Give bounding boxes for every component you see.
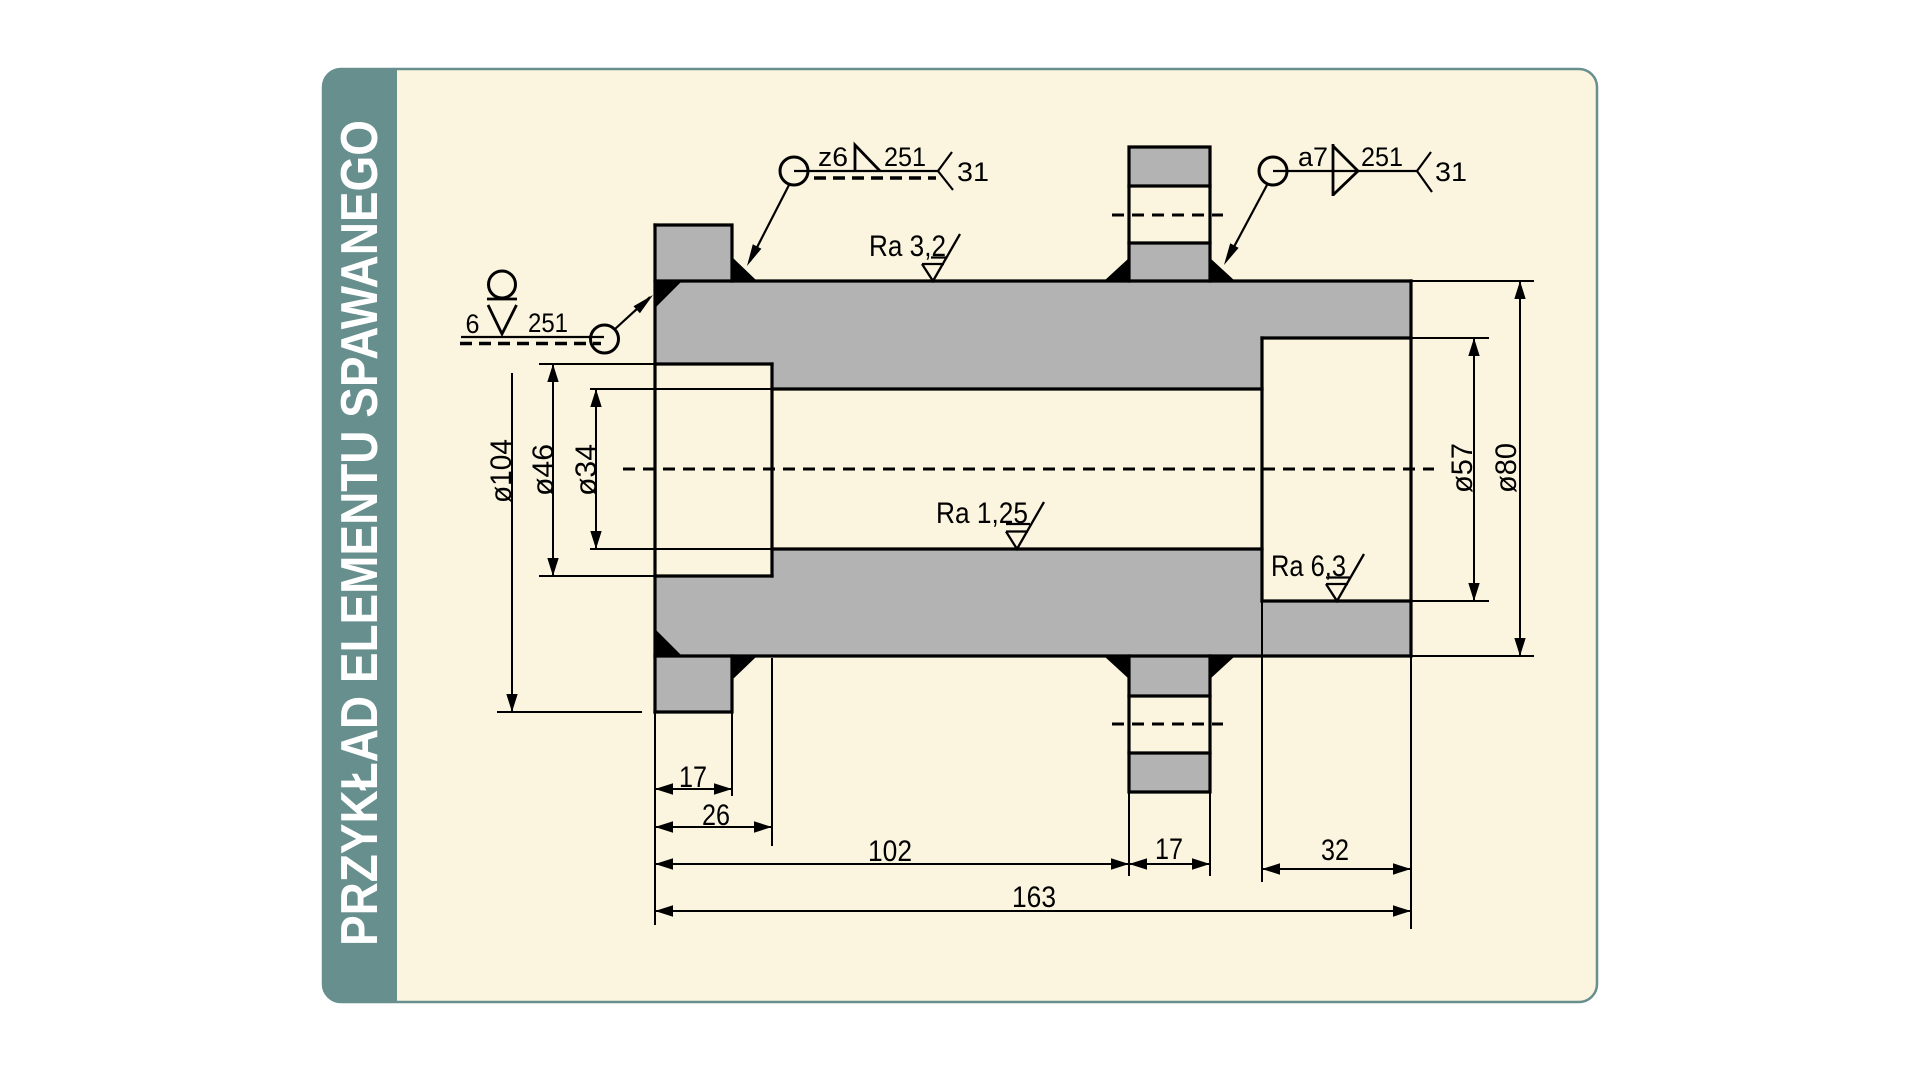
tube right end face xyxy=(1409,281,1412,656)
arrow o57 down xyxy=(1468,583,1479,601)
bore57 bottom edge xyxy=(1262,599,1411,602)
svg-text:251: 251 xyxy=(528,308,568,338)
flange square top outline xyxy=(655,225,732,281)
svg-text:PRZYKŁAD ELEMENTU SPAWANEGO: PRZYKŁAD ELEMENTU SPAWANEGO xyxy=(331,120,389,946)
svg-text:17: 17 xyxy=(679,761,707,794)
dim line o104 xyxy=(511,373,513,712)
arrow o57 up xyxy=(1468,338,1479,356)
dim line 17 left xyxy=(655,788,732,790)
left face line xyxy=(653,225,656,712)
ext counterbore vertical xyxy=(771,658,773,846)
leader line z6 xyxy=(750,185,789,261)
ext o104 bottom xyxy=(497,711,642,713)
arrows 17 left xyxy=(655,783,673,794)
ext left face vertical xyxy=(654,712,656,925)
tail fork a7 xyxy=(1417,152,1432,192)
tail fork z6 xyxy=(938,152,953,190)
Ra 1,25 symbol xyxy=(1006,502,1044,549)
leader line xyxy=(615,297,650,329)
bore57 step face xyxy=(1260,338,1263,601)
bottom stub outer band xyxy=(1129,753,1210,792)
fillet weld symbol z6 xyxy=(855,145,880,171)
ext top stub sides below xyxy=(1129,792,1210,876)
flange ring bottom section xyxy=(655,656,732,712)
top stub outer band xyxy=(1129,147,1210,186)
Ra 3,2 symbol xyxy=(922,234,960,281)
flange ring top section xyxy=(655,225,732,281)
arrow o104 down xyxy=(506,694,517,712)
arrows 17 right xyxy=(1129,858,1147,869)
all-around circle xyxy=(489,271,516,298)
svg-text:251: 251 xyxy=(1361,142,1403,172)
ext o80 bottom xyxy=(1411,655,1534,657)
ext flange right vertical xyxy=(731,712,733,796)
dim line o80 xyxy=(1519,281,1521,656)
weld flange-top right xyxy=(732,257,757,281)
ext o57 bottom xyxy=(1411,600,1489,602)
leader arrowhead z6 xyxy=(747,244,761,266)
ext o34 bottom xyxy=(590,548,772,550)
leader circle xyxy=(591,325,619,353)
weld bottom-stub right xyxy=(1210,656,1235,679)
bore edge bottom xyxy=(772,547,1262,550)
dim line 26 xyxy=(655,826,772,828)
weld bottom-stub left xyxy=(1104,656,1129,679)
bore57 top edge xyxy=(1262,336,1411,339)
svg-text:163: 163 xyxy=(1012,881,1056,914)
bottom stub outline xyxy=(1129,656,1210,792)
leader circle a7 xyxy=(1259,157,1287,185)
ext tube right end vertical xyxy=(1410,656,1412,929)
main axis centerline xyxy=(623,468,1434,471)
weld top-stub left xyxy=(1104,258,1129,281)
leader line a7 xyxy=(1228,185,1267,258)
dim line o34 xyxy=(595,389,597,549)
svg-text:ø80: ø80 xyxy=(1490,443,1523,493)
weld flange-bottom right xyxy=(732,656,757,680)
svg-text:ø57: ø57 xyxy=(1446,443,1479,493)
tube top surface xyxy=(655,279,1411,282)
bottom stub hole lines xyxy=(1129,696,1210,753)
dim line o57 xyxy=(1473,338,1475,601)
leader arrowhead a7 xyxy=(1224,243,1239,265)
dim line 32 xyxy=(1262,868,1411,870)
top stub outline xyxy=(1129,147,1210,281)
weld tube bottom-left corner xyxy=(655,629,681,655)
top stub hole lines xyxy=(1129,186,1210,243)
top stub inner band xyxy=(1129,243,1210,281)
reference line a7 xyxy=(1273,170,1417,172)
svg-text:ø104: ø104 xyxy=(485,439,518,503)
arrows 102 xyxy=(655,858,673,869)
svg-text:ø34: ø34 xyxy=(570,444,603,496)
svg-text:17: 17 xyxy=(1155,833,1183,866)
reference line xyxy=(461,336,604,338)
svg-text:ø46: ø46 xyxy=(527,444,560,496)
V weld symbol xyxy=(488,305,517,334)
identification dashed line z6 xyxy=(814,176,936,180)
arrows 32 xyxy=(1262,863,1280,874)
tube lower wall xyxy=(655,549,1411,656)
ext o34 top xyxy=(590,388,772,390)
top stub hole centerline xyxy=(1112,214,1223,217)
bottom stub hole centerline xyxy=(1112,723,1223,726)
svg-text:32: 32 xyxy=(1321,834,1349,867)
Ra 6,3 symbol xyxy=(1326,554,1364,601)
ext o46 top xyxy=(539,363,655,365)
arrow o34 down xyxy=(590,531,601,549)
dim line 163 xyxy=(655,910,1411,912)
bottom stub inner band xyxy=(1129,656,1210,696)
reference line z6 xyxy=(794,170,938,172)
dim line 17 right xyxy=(1129,863,1210,865)
identification dashed line xyxy=(460,342,601,346)
ext o46 bottom xyxy=(539,575,655,577)
arrow o46 up xyxy=(547,364,558,382)
arrows 26 xyxy=(655,821,673,832)
tube bottom surface xyxy=(655,654,1411,657)
arrow o80 down xyxy=(1514,638,1525,656)
ext o80 top xyxy=(1411,280,1534,282)
dim line 102 xyxy=(655,863,1129,865)
tube upper wall xyxy=(655,281,1411,389)
svg-text:31: 31 xyxy=(957,157,989,187)
svg-text:z6: z6 xyxy=(818,142,848,172)
bar under circle xyxy=(487,298,517,301)
svg-text:102: 102 xyxy=(868,835,912,868)
leader circle z6 xyxy=(780,157,808,185)
svg-text:31: 31 xyxy=(1435,157,1467,187)
ext o57 top xyxy=(1411,337,1489,339)
arrows 163 xyxy=(655,905,673,916)
flange square bottom outline xyxy=(655,656,732,712)
bevel weld symbol a7 xyxy=(1333,144,1358,196)
arrow o34 up xyxy=(590,389,601,407)
leader arrowhead xyxy=(634,295,654,313)
arrow o80 up xyxy=(1514,281,1525,299)
weld top-stub right xyxy=(1210,258,1235,281)
svg-text:26: 26 xyxy=(702,799,730,832)
ext bore57 step vertical xyxy=(1261,601,1263,882)
counterbore bottom edge xyxy=(655,574,772,577)
sidebar xyxy=(323,69,397,1003)
svg-text:a7: a7 xyxy=(1298,142,1328,172)
dim line o46 xyxy=(552,364,554,576)
weld tube top-left corner xyxy=(655,282,681,308)
counterbore face xyxy=(770,364,773,576)
card xyxy=(323,69,1597,1002)
bore edge top xyxy=(772,387,1262,390)
counterbore top edge xyxy=(655,362,772,365)
svg-text:6: 6 xyxy=(466,309,480,339)
arrow o46 down xyxy=(547,558,558,576)
svg-text:251: 251 xyxy=(884,142,926,172)
